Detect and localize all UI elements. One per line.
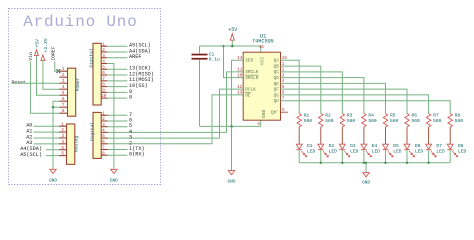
svg-text:16: 16 <box>259 46 264 50</box>
svg-text:9: 9 <box>102 88 105 93</box>
svg-text:7: 7 <box>102 146 105 151</box>
resistor R2 560 <box>319 114 323 127</box>
wire QA to R1 <box>281 60 300 113</box>
net 9 <box>107 91 127 93</box>
wire LED to rail <box>298 150 300 163</box>
net digital 1(TX) <box>108 149 128 151</box>
svg-text:LED: LED <box>415 148 424 154</box>
Digital(upper) pin 6 <box>101 74 107 76</box>
resistor R7 560 <box>426 114 430 127</box>
svg-text:D3: D3 <box>350 143 356 149</box>
svg-text:D4: D4 <box>372 143 378 149</box>
net A5(SCL) <box>107 45 127 47</box>
LED D7 <box>426 144 432 149</box>
ground (74HC595) <box>228 171 234 175</box>
resistor R4 560 <box>362 114 366 127</box>
svg-text:A5(SCL): A5(SCL) <box>20 152 42 158</box>
pin stubs R to LED <box>449 127 451 144</box>
Power pin 1 <box>59 70 67 72</box>
svg-text:0.1u: 0.1u <box>209 57 220 63</box>
svg-text:3: 3 <box>61 134 64 139</box>
ground (LED rail) <box>363 173 369 177</box>
svg-text:560: 560 <box>347 118 356 124</box>
svg-text:GND: GND <box>49 178 57 184</box>
svg-text:2: 2 <box>62 73 65 78</box>
svg-text:GND: GND <box>261 110 267 119</box>
svg-text:LED: LED <box>458 148 467 154</box>
net A5(SCL) <box>46 155 59 157</box>
svg-text:D8: D8 <box>458 143 464 149</box>
svg-text:D2: D2 <box>329 143 335 149</box>
svg-text:LED: LED <box>329 148 338 154</box>
svg-text:4: 4 <box>102 60 105 65</box>
Digital(upper) pin 9 <box>101 91 107 93</box>
svg-text:AREF: AREF <box>129 54 141 60</box>
ground (digital header) <box>111 169 117 173</box>
Digital(upper) pin 5 <box>101 68 107 70</box>
svg-text:Digital: Digital <box>88 48 94 68</box>
svg-text:QF: QF <box>274 88 280 93</box>
wire QB to R2 <box>281 66 321 113</box>
junction rail <box>384 162 386 164</box>
Digital(lower) pin 8 <box>101 154 107 156</box>
svg-text:GND: GND <box>227 178 235 184</box>
net 8 <box>107 97 127 99</box>
svg-text:10: 10 <box>101 94 107 99</box>
svg-text:8: 8 <box>129 95 132 101</box>
svg-text:GND: GND <box>362 179 370 185</box>
Digital(lower) pin 1 <box>101 114 107 116</box>
+5V supply arrow (U1) <box>230 34 234 41</box>
svg-text:12: 12 <box>237 85 243 90</box>
svg-text:LED: LED <box>372 148 381 154</box>
svg-text:560: 560 <box>304 118 313 124</box>
net A4(SDA) <box>107 51 127 53</box>
svg-text:2: 2 <box>129 140 132 146</box>
resistor R6 560 <box>405 114 409 127</box>
svg-text:D6: D6 <box>415 143 421 149</box>
net +3.3V supply arrow <box>41 55 45 61</box>
pin stubs R to LED <box>385 127 387 144</box>
Digital(upper) pin 3 <box>101 57 107 59</box>
Digital(lower) pin 6 <box>101 143 107 145</box>
no-connect X on power pin 1 <box>56 69 60 73</box>
net GND (upper digital pin 4) <box>107 64 114 170</box>
junction rail <box>406 162 408 164</box>
Power pin 2 <box>59 76 67 78</box>
pin stubs R to LED <box>406 127 408 144</box>
wire LED to rail <box>449 150 451 163</box>
svg-text:11: 11 <box>237 68 243 73</box>
svg-text:6: 6 <box>102 140 105 145</box>
Power pin 4 <box>59 88 67 90</box>
net digital 0(RX) <box>108 154 128 156</box>
net A3 <box>34 143 60 145</box>
svg-text:74HC595: 74HC595 <box>252 38 274 44</box>
svg-text:QB: QB <box>274 64 280 69</box>
svg-text:R4: R4 <box>368 113 374 119</box>
connector Digital header (lower) <box>93 112 101 158</box>
Digital(lower) pin 5 <box>101 137 107 139</box>
svg-text:8: 8 <box>62 109 65 114</box>
svg-text:1: 1 <box>61 122 64 127</box>
resistor R3 560 <box>340 114 344 127</box>
Analog pin 2 <box>59 131 67 133</box>
svg-text:R6: R6 <box>412 113 418 119</box>
svg-text:4: 4 <box>102 129 105 134</box>
wire LED to rail <box>341 150 343 163</box>
net digital 6 <box>108 120 128 122</box>
svg-text:560: 560 <box>433 118 442 124</box>
resistor R1 560 <box>297 114 301 127</box>
svg-text:5: 5 <box>62 91 65 96</box>
LED D6 <box>404 144 410 149</box>
svg-text:6: 6 <box>102 71 105 76</box>
svg-text:R8: R8 <box>455 113 461 119</box>
LED D3 <box>339 144 345 149</box>
svg-text:Reset: Reset <box>12 80 27 86</box>
junction power GND <box>52 106 55 109</box>
Power pin 3 <box>59 82 67 84</box>
svg-text:D5: D5 <box>393 143 399 149</box>
connector Power header <box>68 68 76 116</box>
svg-text:GND: GND <box>110 178 118 184</box>
Digital(upper) pin 4 <box>101 63 107 65</box>
net +5V supply arrow <box>35 50 39 56</box>
wire LED to rail <box>385 150 387 163</box>
net 10(SS) <box>107 86 127 88</box>
svg-text:SRCLK: SRCLK <box>245 70 259 75</box>
svg-text:SER: SER <box>245 59 253 64</box>
svg-text:560: 560 <box>412 118 421 124</box>
net A1 <box>34 131 60 133</box>
svg-text:2: 2 <box>102 48 105 53</box>
svg-text:R1: R1 <box>304 113 310 119</box>
wire QD to R4 <box>281 78 364 114</box>
Digital(upper) pin 10 <box>101 97 107 99</box>
net digital 5 <box>108 126 128 128</box>
GND rail under U1 <box>200 120 261 126</box>
svg-text:R7: R7 <box>433 113 439 119</box>
net digital 3 -> U1 RCLK <box>108 89 244 138</box>
svg-text:QD: QD <box>274 76 280 81</box>
LED D2 <box>318 144 324 149</box>
svg-text:0(RX): 0(RX) <box>129 152 145 158</box>
capacitor C1 0.1u <box>192 54 208 56</box>
svg-text:R5: R5 <box>390 113 396 119</box>
Power pin 5 <box>59 94 67 96</box>
svg-text:2: 2 <box>61 128 64 133</box>
Digital(lower) pin 7 <box>101 149 107 151</box>
svg-text:6: 6 <box>61 152 64 157</box>
net SRCLR tie to +5V <box>224 46 244 78</box>
svg-text:560: 560 <box>455 118 464 124</box>
LED D5 <box>383 144 389 149</box>
svg-text:5: 5 <box>61 146 64 151</box>
svg-text:IOREF: IOREF <box>50 46 56 61</box>
svg-text:560: 560 <box>390 118 399 124</box>
wire GND drop <box>231 126 233 170</box>
svg-text:C1: C1 <box>209 52 215 58</box>
svg-text:LED: LED <box>307 148 316 154</box>
svg-text:QH: QH <box>274 99 280 104</box>
svg-text:8: 8 <box>102 151 105 156</box>
U1 pin 9 QH' <box>281 111 289 113</box>
LED cathode rail <box>299 162 450 164</box>
LED D8 <box>447 144 453 149</box>
svg-text:1: 1 <box>102 111 105 116</box>
junction +5V <box>231 45 234 48</box>
svg-text:3: 3 <box>102 123 105 128</box>
junction rail <box>363 162 365 164</box>
Analog pin 3 <box>59 137 67 139</box>
Digital(lower) pin 2 <box>101 120 107 122</box>
LED D1 <box>296 144 302 149</box>
wire QG to R7 <box>281 95 429 114</box>
svg-text:VCC: VCC <box>260 57 266 66</box>
net A0 <box>34 125 60 127</box>
svg-text:LED: LED <box>350 148 359 154</box>
wire power GND drop <box>52 107 54 169</box>
LED D4 <box>361 144 367 149</box>
svg-text:Vin: Vin <box>28 52 34 61</box>
net A4(SDA) <box>46 149 59 151</box>
junction rail <box>320 162 322 164</box>
svg-text:7: 7 <box>62 103 65 108</box>
power GND wires pins 6,7 <box>53 101 59 107</box>
svg-text:13: 13 <box>237 91 243 96</box>
ground (power header) <box>50 169 56 173</box>
svg-text:6: 6 <box>62 97 65 102</box>
Arduino Uno module boundary (dashed frame) <box>9 9 161 185</box>
Digital(lower) pin 3 <box>101 126 107 128</box>
svg-text:Power: Power <box>75 77 81 91</box>
wire QE to R5 <box>281 83 386 113</box>
wire rail to GND <box>365 163 367 173</box>
svg-text:4: 4 <box>62 85 65 90</box>
svg-text:3: 3 <box>62 79 65 84</box>
svg-text:3: 3 <box>102 54 105 59</box>
wire LED to rail <box>428 150 430 163</box>
svg-text:4: 4 <box>61 140 64 145</box>
svg-text:QC: QC <box>274 70 280 75</box>
connector Digital header (upper) <box>93 43 101 105</box>
+5V rail to VCC pin <box>200 46 261 52</box>
wire QH to R8 <box>281 101 451 114</box>
pin stubs R to LED <box>341 127 343 144</box>
SER riser wire <box>232 60 244 126</box>
svg-text:LED: LED <box>436 148 445 154</box>
svg-text:R3: R3 <box>347 113 353 119</box>
Power pin 6 <box>59 100 67 102</box>
svg-text:OE: OE <box>245 93 251 98</box>
Digital(upper) pin 2 <box>101 51 107 53</box>
wire LED to rail <box>406 150 408 163</box>
svg-text:D7: D7 <box>436 143 442 149</box>
pin stubs R to LED <box>298 127 300 144</box>
wire QC to R3 <box>281 72 343 114</box>
svg-text:QG: QG <box>274 93 280 98</box>
svg-text:R2: R2 <box>325 113 331 119</box>
pin stubs R to LED <box>363 127 365 144</box>
junction rail <box>427 162 429 164</box>
Digital(lower) pin 4 <box>101 131 107 133</box>
svg-text:QH′: QH′ <box>271 111 279 116</box>
svg-text:+5V: +5V <box>35 39 41 48</box>
svg-text:5: 5 <box>102 65 105 70</box>
svg-text:Arduino Uno: Arduino Uno <box>23 13 137 31</box>
svg-text:LED: LED <box>393 148 402 154</box>
net 13(SCK) <box>107 68 127 70</box>
net digital 4 -> U1 SRCLK <box>108 72 244 133</box>
Analog pin 4 <box>59 143 67 145</box>
net digital 2 -> U1 OE <box>108 95 244 144</box>
svg-text:1: 1 <box>102 42 105 47</box>
Analog pin 5 <box>59 149 67 151</box>
svg-text:10: 10 <box>237 73 243 78</box>
svg-text:+3.3V: +3.3V <box>43 38 49 53</box>
connector Analog header <box>67 124 75 164</box>
net A2 <box>34 137 60 139</box>
svg-text:14: 14 <box>237 56 243 61</box>
Digital(upper) pin 8 <box>101 86 107 88</box>
resistor R8 560 <box>448 114 452 127</box>
net AREF <box>107 57 127 59</box>
IC U1 74HC595 <box>243 52 280 120</box>
wire C1 to GND rail <box>199 60 201 127</box>
svg-text:5: 5 <box>102 134 105 139</box>
junction rail <box>341 162 343 164</box>
svg-text:Digital: Digital <box>89 122 95 142</box>
pin stubs R to LED <box>428 127 430 144</box>
svg-text:SRCLR: SRCLR <box>245 76 259 81</box>
Analog pin 1 <box>59 125 67 127</box>
net 12(MISO) <box>107 74 127 76</box>
svg-text:2: 2 <box>102 117 105 122</box>
wire +5V rail to C1 <box>199 46 201 54</box>
net digital 7 <box>108 114 128 116</box>
Power pin 7 <box>59 106 67 108</box>
svg-text:+5V: +5V <box>228 27 237 33</box>
svg-text:RCLK: RCLK <box>245 88 256 93</box>
svg-text:D1: D1 <box>307 143 313 149</box>
svg-text:Analog: Analog <box>74 135 80 152</box>
resistor R5 560 <box>383 114 387 127</box>
svg-text:8: 8 <box>102 83 105 88</box>
svg-text:560: 560 <box>325 118 334 124</box>
Analog pin 6 <box>59 155 67 157</box>
Digital(upper) pin 1 <box>101 45 107 47</box>
svg-text:7: 7 <box>102 77 105 82</box>
junction GND rail <box>230 125 233 128</box>
svg-text:QE: QE <box>274 82 280 87</box>
Power pin 8 <box>59 112 67 114</box>
wire LED to rail <box>320 150 322 163</box>
pin stubs R to LED <box>320 127 322 144</box>
wire QF to R6 <box>281 89 408 113</box>
wire LED to rail <box>363 150 365 163</box>
net 11(MOSI) <box>107 80 127 82</box>
wire +5V arrow drop <box>231 40 233 46</box>
svg-text:1: 1 <box>62 67 65 72</box>
Digital(upper) pin 7 <box>101 80 107 82</box>
svg-text:QA: QA <box>274 59 280 64</box>
svg-text:560: 560 <box>368 118 377 124</box>
